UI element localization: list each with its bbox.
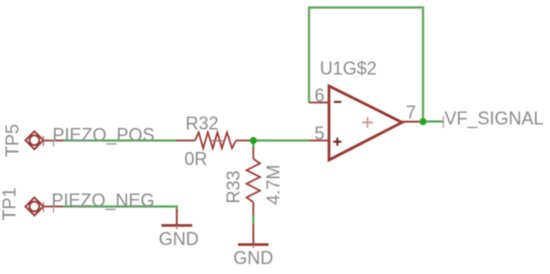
svg-text:PIEZO_NEG: PIEZO_NEG <box>52 190 155 211</box>
ground symbol GND left <box>161 209 192 229</box>
svg-text:VF_SIGNAL: VF_SIGNAL <box>445 109 544 130</box>
svg-text:5: 5 <box>315 123 325 143</box>
wire net R33 bottom to GND <box>252 215 254 225</box>
svg-text:PIEZO_POS: PIEZO_POS <box>53 125 155 146</box>
test point TP1 symbol <box>25 198 63 216</box>
svg-text:R32: R32 <box>186 113 219 133</box>
label origin cross PIEZO_POS <box>53 140 55 147</box>
wire net output to VF_SIGNAL label <box>423 120 444 122</box>
test point TP5 symbol <box>25 131 63 149</box>
ground symbol GND right <box>238 224 269 248</box>
svg-text:0R: 0R <box>184 149 207 169</box>
svg-text:7: 7 <box>406 103 416 123</box>
pin cross TP1 <box>42 202 44 212</box>
minus mark at pin 6 <box>334 101 341 103</box>
wire net PIEZO_POS horizontal <box>62 139 177 141</box>
svg-text:TP1: TP1 <box>0 187 20 220</box>
svg-text:TP5: TP5 <box>3 124 23 157</box>
svg-text:GND: GND <box>159 229 199 249</box>
wire feedback loop from output to pin 6 <box>309 8 423 122</box>
junction node at op-amp output <box>419 118 426 125</box>
svg-text:U1G$2: U1G$2 <box>320 59 377 79</box>
op-amp pin 7 (output) <box>403 121 424 123</box>
op-amp pin 5 (non-inverting input) <box>309 140 329 142</box>
junction node at R32/R33 <box>250 137 257 144</box>
pin cross TP5 <box>42 136 44 146</box>
R32 zero-ohm crossbar <box>212 140 223 142</box>
wire net PIEZO_NEG horizontal <box>62 207 177 211</box>
resistor R32 body <box>176 132 253 148</box>
label origin cross PIEZO_NEG <box>53 206 55 213</box>
faint plus mark at triangle center <box>362 117 373 128</box>
op-amp U1G$2 triangle <box>329 86 402 160</box>
svg-text:R33: R33 <box>224 170 244 203</box>
wire net from R32 junction to op-amp pin 5 <box>253 139 309 141</box>
op-amp pin 6 (inverting input) <box>309 102 329 104</box>
svg-text:GND: GND <box>233 248 273 268</box>
svg-text:4.7M: 4.7M <box>263 165 283 205</box>
wire net junction stub down to R33 <box>252 141 254 149</box>
resistor R33 body <box>247 148 260 216</box>
svg-text:6: 6 <box>315 85 325 105</box>
plus mark at pin 5 <box>333 138 341 146</box>
label origin cross VF_SIGNAL <box>442 116 444 129</box>
